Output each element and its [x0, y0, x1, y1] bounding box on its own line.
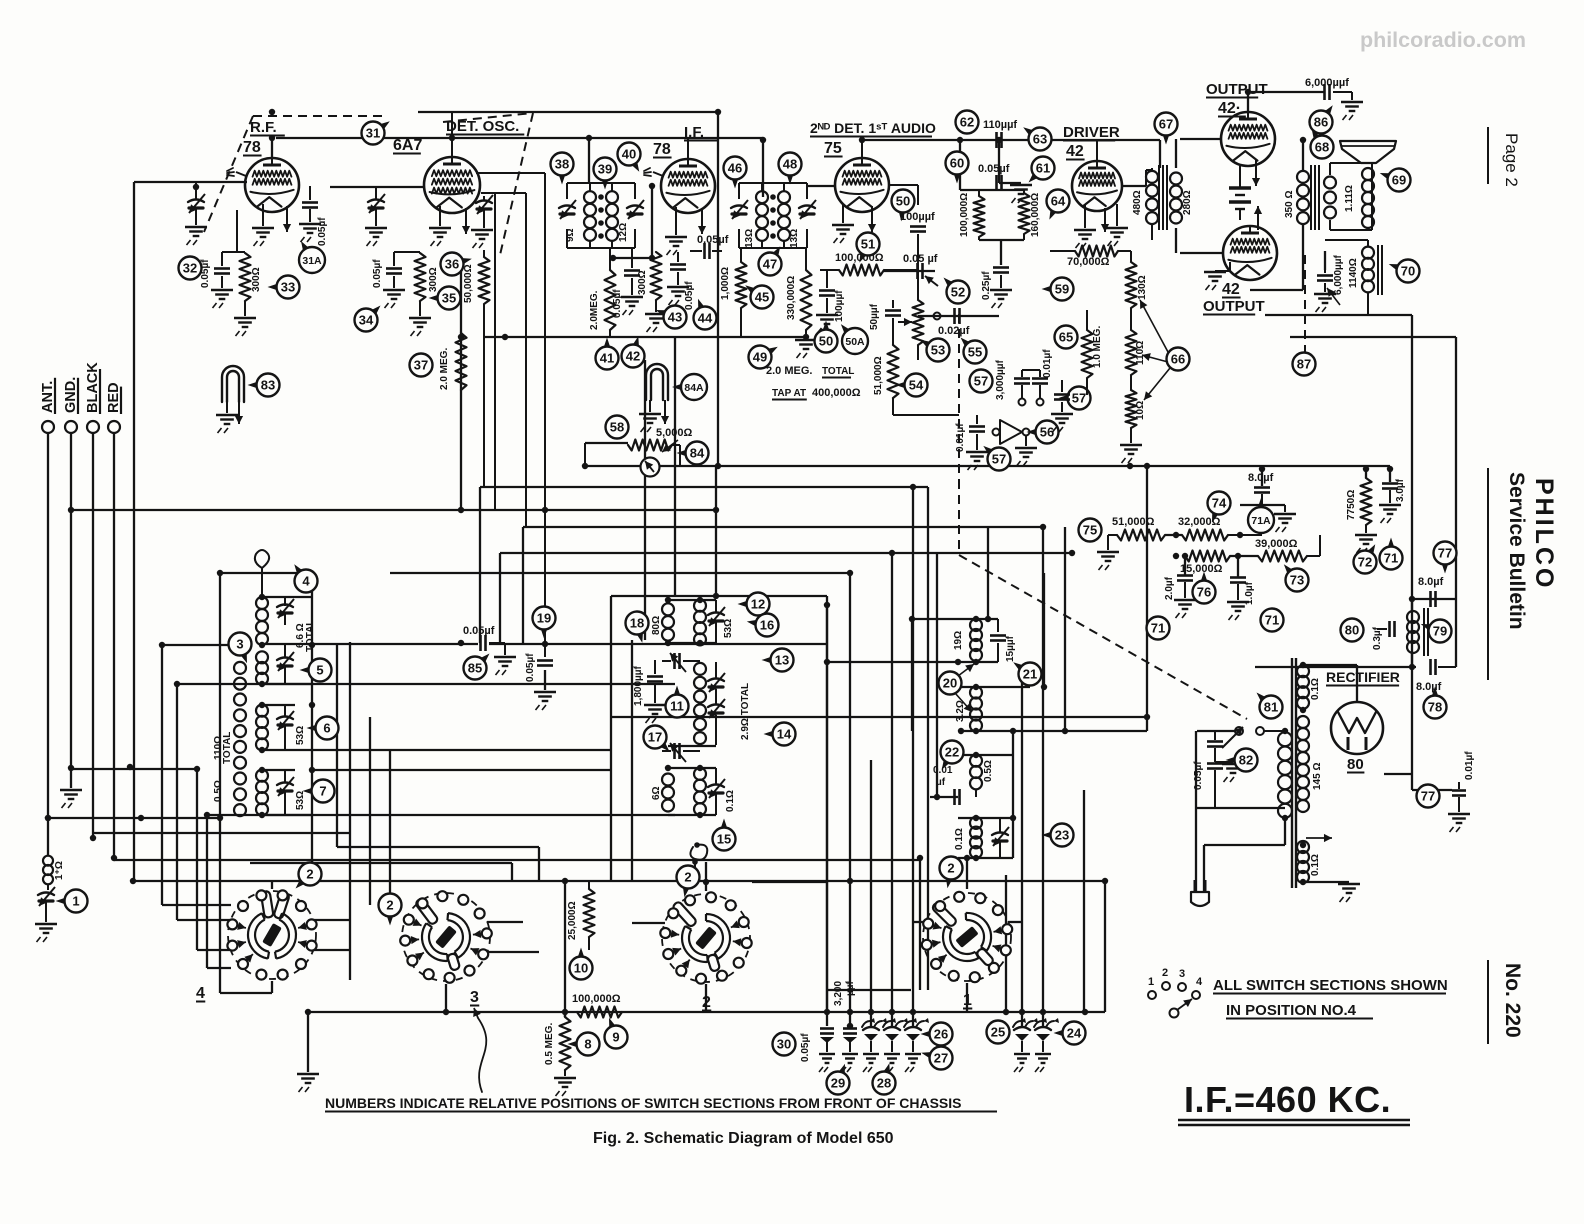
interstage transformer T4 — [1146, 171, 1158, 183]
svg-text:50A: 50A — [845, 336, 865, 348]
wire coil6 bot — [262, 749, 312, 751]
callout 19 — [533, 607, 556, 630]
svg-text:1,000Ω: 1,000Ω — [720, 267, 731, 300]
callout 32 — [179, 257, 202, 280]
wire bottom v1006 — [1005, 875, 1007, 1012]
svg-text:0.05 µf: 0.05 µf — [903, 253, 938, 265]
wire rail 0.1 top — [958, 817, 1013, 819]
callout 84 — [686, 442, 709, 465]
wire res36 drop — [483, 304, 485, 487]
wire osc v3 — [644, 360, 646, 640]
svg-text:12: 12 — [751, 597, 765, 612]
svg-text:RECTIFIER: RECTIFIER — [1326, 669, 1400, 685]
svg-text:23: 23 — [1055, 828, 1069, 843]
ground cap32 — [211, 289, 233, 291]
capacitor 82 line filters — [1214, 731, 1216, 740]
svg-text:DRIVER: DRIVER — [1063, 124, 1120, 141]
callout 74 — [1208, 492, 1231, 515]
wire left jog 4 — [114, 859, 920, 861]
capacitor 34 0.05uf — [393, 252, 395, 266]
wire rail 0.1 bot — [958, 857, 1013, 859]
75 cathode ground — [832, 224, 854, 226]
long wave coil 110ohm — [234, 662, 246, 674]
junction — [305, 1009, 311, 1015]
svg-text:1.0µf: 1.0µf — [1244, 581, 1255, 605]
junction — [847, 878, 853, 884]
trimmer 5 — [277, 658, 293, 661]
callout 42 — [622, 345, 645, 368]
wire driver plate — [1122, 185, 1146, 187]
svg-text:9: 9 — [612, 1030, 619, 1045]
junction — [859, 137, 865, 143]
svg-text:1.0 MEG.: 1.0 MEG. — [1092, 326, 1103, 368]
svg-text:14: 14 — [777, 727, 792, 742]
svg-text:ANT.: ANT. — [40, 381, 56, 413]
junction — [973, 684, 979, 690]
junction — [1259, 466, 1265, 472]
junction — [1144, 463, 1150, 469]
junction — [259, 812, 265, 818]
trimmer 6 — [277, 717, 293, 720]
junction — [443, 1009, 449, 1015]
svg-text:GND.: GND. — [63, 377, 79, 413]
svg-text:58: 58 — [610, 420, 624, 435]
osc coil out — [694, 768, 706, 780]
svg-text:0.05µf: 0.05µf — [525, 653, 536, 682]
callout 57b — [988, 448, 1011, 471]
wire prim bot — [1284, 818, 1286, 845]
junction — [217, 570, 223, 576]
capacitor 63 0.05uf — [995, 175, 998, 191]
RF cathode ground — [252, 227, 274, 229]
wire plug lead R — [1203, 845, 1205, 892]
meter arrow — [662, 440, 678, 452]
svg-text:49: 49 — [753, 350, 767, 365]
junction — [502, 334, 508, 340]
callout 13 — [771, 649, 794, 672]
ground res33 — [234, 317, 256, 319]
wire cap71c stub — [1389, 469, 1391, 482]
svg-text:2: 2 — [306, 867, 313, 882]
wire AVC drop — [133, 182, 135, 881]
callout 6 — [316, 717, 339, 740]
svg-text:60: 60 — [950, 156, 964, 171]
callout 52 — [947, 281, 970, 304]
wire IF cathode stub — [675, 207, 677, 235]
junction — [259, 702, 265, 708]
callout 75 — [1079, 519, 1102, 542]
wire sw4 up — [271, 880, 273, 889]
junction — [45, 815, 51, 821]
trimmer 17 — [673, 743, 676, 759]
callout 44 — [694, 307, 717, 330]
volume pot 53/54 — [913, 300, 924, 345]
svg-text:45: 45 — [755, 290, 769, 305]
junction — [847, 1023, 853, 1029]
wire bus 3 — [523, 526, 1043, 528]
wire RF plate up — [271, 138, 273, 158]
svg-text:3,200: 3,200 — [833, 981, 844, 1006]
svg-text:Service Bulletin: Service Bulletin — [1505, 472, 1528, 630]
wire coilbox right — [311, 573, 313, 880]
wire T2 grid drop — [651, 186, 653, 258]
junction — [1387, 466, 1393, 472]
callout 37 — [410, 354, 433, 377]
xfmr ground — [1338, 883, 1360, 885]
svg-text:57: 57 — [992, 452, 1006, 467]
callout 47 — [759, 253, 782, 276]
resistor 74 32000ohm — [1182, 530, 1228, 541]
wire sw2 right link — [752, 881, 827, 883]
callout 20 — [939, 672, 962, 695]
junction — [1127, 463, 1133, 469]
junction — [1282, 728, 1288, 734]
wire choke v2 — [1411, 652, 1413, 667]
wire ant coil top — [262, 596, 312, 598]
junction — [909, 616, 915, 622]
coil 19ohm — [970, 619, 982, 631]
resistor 65 1.0MEG — [1082, 330, 1093, 378]
callout 1 — [65, 890, 88, 913]
junction — [713, 507, 719, 513]
wire left jog 1 — [71, 768, 197, 770]
svg-text:19: 19 — [537, 611, 551, 626]
svg-text:51,000Ω: 51,000Ω — [873, 356, 884, 395]
callout 2 (sw2) — [677, 866, 700, 889]
wire v495 — [494, 193, 496, 510]
callout 9 — [605, 1026, 628, 1049]
junction — [1237, 532, 1243, 538]
junction — [259, 747, 265, 753]
ground GND terminal — [60, 789, 82, 791]
IF transformer T3 — [739, 182, 807, 184]
capacitor 50 100uuf — [917, 185, 919, 205]
wire res60 drop — [959, 140, 961, 190]
wire choke v — [1411, 599, 1413, 612]
svg-text:0.05µf: 0.05µf — [372, 259, 383, 288]
capacitor 50A 100uuf — [826, 270, 828, 288]
callout 53 — [927, 339, 950, 362]
wire res60 top rail — [960, 189, 1024, 191]
svg-text:25,000Ω: 25,000Ω — [567, 901, 578, 940]
wire 75 plate up — [861, 140, 863, 158]
wire plate drop T2 — [588, 138, 590, 183]
wire grid line RF — [134, 181, 247, 183]
wire band h863 — [250, 862, 512, 864]
callout 50b — [892, 190, 915, 213]
trimmer 4 — [277, 605, 293, 608]
wire RED lead — [113, 433, 115, 858]
dashed link to switch 81b — [958, 480, 960, 555]
svg-text:63: 63 — [1033, 132, 1047, 147]
primary winding — [1278, 732, 1292, 746]
callout 43 — [664, 306, 687, 329]
junction — [697, 812, 703, 818]
callout 66 — [1167, 348, 1190, 371]
sidebar rule Page2 — [1487, 127, 1489, 184]
svg-text:3: 3 — [236, 637, 243, 652]
wire v565 up — [564, 881, 566, 1017]
squiggle arrow to sw3 — [478, 1018, 486, 1092]
svg-text:72: 72 — [1358, 555, 1372, 570]
wire v526 — [525, 193, 527, 527]
cap 13 — [708, 679, 724, 682]
wire plug line — [1204, 844, 1285, 846]
resistor 58 5000ohm — [628, 440, 672, 451]
svg-text:80: 80 — [1345, 623, 1359, 638]
resistor 41 2.0MEG — [605, 270, 616, 330]
secondary 0.1 bottom — [1297, 841, 1309, 853]
svg-text:0.25µf: 0.25µf — [981, 271, 992, 300]
junction — [1019, 1009, 1025, 1015]
capacitor 32 0.05uf — [221, 252, 223, 266]
callout 46 — [724, 157, 747, 180]
wire v912 band — [911, 619, 913, 731]
callout 59 — [1051, 278, 1074, 301]
svg-text:No. 220: No. 220 — [1501, 963, 1524, 1038]
wire bottom bus — [308, 1011, 1105, 1013]
wire block20 v1065 — [1064, 527, 1066, 731]
junction — [1300, 707, 1306, 713]
callout 68 — [1311, 136, 1334, 159]
svg-text:6,000µµf: 6,000µµf — [1305, 77, 1349, 89]
callout 4 — [295, 570, 318, 593]
callout 64 — [1047, 190, 1070, 213]
junction — [309, 702, 315, 708]
junction — [259, 767, 265, 773]
output transformer T5 — [1297, 171, 1309, 183]
svg-text:73: 73 — [1290, 573, 1304, 588]
wire sw4 stub r2 — [313, 949, 350, 951]
svg-text:61: 61 — [1036, 161, 1050, 176]
svg-text:0.1Ω: 0.1Ω — [1310, 678, 1321, 700]
svg-text:0.1Ω: 0.1Ω — [1310, 854, 1321, 876]
junction — [917, 855, 923, 861]
svg-text:59: 59 — [1055, 282, 1069, 297]
RF heater arrow — [286, 206, 288, 232]
svg-text:53Ω: 53Ω — [295, 791, 306, 810]
capacitor 59 0.25uf — [993, 266, 1009, 269]
wire cap77b line — [1412, 789, 1452, 791]
resistor 35 300ohm — [415, 253, 426, 301]
wire B+ top — [1248, 91, 1325, 93]
vacuum tube V3 I.F. 78 — [661, 159, 715, 213]
svg-text:400,000Ω: 400,000Ω — [812, 387, 861, 399]
svg-text:110Ω: 110Ω — [1135, 341, 1146, 365]
wire ox top — [1302, 140, 1304, 170]
callout 61 — [1032, 157, 1055, 180]
secondary 0.1 top — [1297, 665, 1309, 677]
svg-text:0.05µf: 0.05µf — [697, 234, 729, 246]
shield dashed top DET — [443, 113, 533, 122]
vacuum tube V6 OUTPUT 42 — [1221, 112, 1275, 166]
filter choke 79 — [1407, 611, 1419, 623]
capacitor 71C 3.0uf — [1382, 482, 1398, 485]
wire block20 v937 — [936, 553, 938, 797]
callout 77b — [1417, 785, 1440, 808]
capacitor 1 — [38, 893, 54, 896]
75 heater arrow — [871, 206, 873, 232]
wire field coil return — [1290, 336, 1456, 338]
callout 62 — [956, 111, 979, 134]
wire sw2 dn — [705, 984, 707, 1012]
callout 2 (sw1) — [940, 857, 963, 880]
callout 21 — [1019, 663, 1042, 686]
wire jog 968 — [207, 967, 231, 969]
callout 63 — [1029, 128, 1052, 151]
wire sw3 feed2 — [369, 717, 371, 905]
callout 40 — [618, 143, 641, 166]
svg-text:41: 41 — [600, 351, 614, 366]
wire IF plate up — [687, 138, 689, 159]
junction — [269, 135, 275, 141]
field arrow — [1327, 288, 1340, 305]
lamp83 arrow — [238, 400, 240, 424]
callout 57a — [970, 370, 993, 393]
svg-text:24: 24 — [1067, 1026, 1082, 1041]
junction — [1300, 662, 1306, 668]
junction — [1173, 532, 1179, 538]
wire bus 2 — [480, 486, 928, 488]
svg-text:2: 2 — [386, 898, 393, 913]
callout 17 — [644, 726, 667, 749]
wire 75 out drop — [998, 140, 1000, 183]
wire out2 plate — [1250, 289, 1303, 291]
callout 22 — [941, 741, 964, 764]
svg-text:39,000Ω: 39,000Ω — [1255, 538, 1298, 550]
svg-text:68: 68 — [1315, 140, 1329, 155]
junction — [68, 765, 74, 771]
wire box top — [220, 572, 312, 574]
svg-text:75: 75 — [1083, 523, 1097, 538]
callout 85 — [464, 657, 487, 680]
junction — [1173, 553, 1179, 559]
callout 86 — [1310, 111, 1333, 134]
6A7 third grid — [432, 188, 472, 194]
resistor 49 330000ohm — [801, 270, 812, 330]
svg-text:87: 87 — [1297, 357, 1311, 372]
svg-text:77: 77 — [1421, 789, 1435, 804]
svg-text:8: 8 — [584, 1037, 591, 1052]
callout 80 — [1341, 619, 1364, 642]
callout 84A — [681, 374, 707, 400]
wire IF out — [715, 466, 717, 596]
wire cap63 stub — [999, 182, 1021, 184]
svg-text:6: 6 — [323, 721, 330, 736]
callout 56 — [1036, 421, 1059, 444]
svg-text:110µµf: 110µµf — [983, 119, 1017, 131]
terminal BLACK — [87, 421, 99, 433]
callout 34 — [355, 309, 378, 332]
svg-text:1: 1 — [1148, 976, 1154, 988]
svg-text:10Ω: 10Ω — [1135, 401, 1146, 420]
junction — [957, 137, 963, 143]
out2 ground — [1204, 271, 1226, 273]
callout 76 — [1193, 581, 1216, 604]
junction — [259, 642, 265, 648]
svg-text:83: 83 — [261, 378, 275, 393]
junction — [1082, 1009, 1088, 1015]
junction — [697, 765, 703, 771]
junction — [697, 640, 703, 646]
callout 25 — [987, 1021, 1010, 1044]
svg-text:5,000Ω: 5,000Ω — [656, 427, 693, 439]
junction — [259, 681, 265, 687]
svg-text:13: 13 — [775, 653, 789, 668]
svg-text:28: 28 — [877, 1076, 891, 1091]
shield dashed right DET — [500, 113, 533, 255]
wire coil7 bot — [262, 814, 312, 816]
wire res36 top stub — [483, 250, 485, 257]
osc coil mid — [694, 663, 706, 675]
capacitor 57a 3000uuf x2 — [1021, 370, 1023, 377]
capacitor 24 — [1042, 1012, 1044, 1026]
callout 54 — [905, 374, 928, 397]
junction — [68, 507, 74, 513]
svg-text:2.0 MEG.: 2.0 MEG. — [766, 365, 812, 377]
svg-text:47: 47 — [763, 257, 777, 272]
junction — [1040, 1009, 1046, 1015]
svg-text:22: 22 — [945, 745, 959, 760]
terminal GND. — [65, 421, 77, 433]
svg-text:0.05µf: 0.05µf — [978, 163, 1010, 175]
ground res35 — [409, 317, 431, 319]
svg-text:46: 46 — [728, 161, 742, 176]
trimmer capacitor C-RF — [195, 182, 197, 200]
shield dashed top RF — [253, 115, 386, 117]
wire rail 0.5 top — [958, 754, 1013, 756]
junction — [582, 463, 588, 469]
wire bus 1 — [585, 465, 1390, 467]
svg-text:75: 75 — [824, 140, 842, 157]
trimmer capacitor C-6A7 — [375, 187, 377, 200]
wire tapL v162 — [161, 645, 163, 905]
junction — [713, 593, 719, 599]
callout 28 — [873, 1072, 896, 1095]
callout 71A — [1248, 507, 1274, 533]
svg-text:3: 3 — [1179, 968, 1185, 980]
svg-text:1,800µµf: 1,800µµf — [633, 665, 644, 706]
wafer switch section 4 — [228, 891, 316, 979]
wire out1 grid — [1180, 138, 1221, 140]
power transformer core — [1291, 658, 1293, 888]
field coil 70 — [1362, 247, 1374, 259]
wire 6A7 grid line — [330, 186, 424, 188]
secondary HV — [1297, 716, 1309, 728]
svg-text:31: 31 — [366, 126, 380, 141]
wire bottom v892 — [891, 553, 893, 1026]
capacitor 30 0.05uf — [826, 1012, 828, 1026]
switch 81 on-off — [1235, 727, 1243, 735]
junction — [127, 764, 133, 770]
svg-text:82: 82 — [1239, 753, 1253, 768]
wire band h815 — [207, 814, 675, 816]
svg-text:65: 65 — [1059, 330, 1073, 345]
antenna coil top (4) — [256, 597, 268, 609]
resistor 76 15000ohm — [1185, 551, 1230, 562]
callout 69 — [1388, 169, 1411, 192]
svg-text:300Ω: 300Ω — [428, 267, 439, 292]
svg-text:50: 50 — [819, 334, 833, 349]
wire coil6 top — [262, 704, 295, 706]
svg-text:3,000µµf: 3,000µµf — [995, 359, 1006, 400]
svg-text:78: 78 — [653, 141, 671, 158]
wire bus 5 — [390, 572, 850, 574]
svg-text:130Ω: 130Ω — [1137, 275, 1148, 300]
svg-text:62: 62 — [960, 115, 974, 130]
svg-text:54: 54 — [909, 378, 924, 393]
wire RF plate corner — [271, 138, 273, 158]
